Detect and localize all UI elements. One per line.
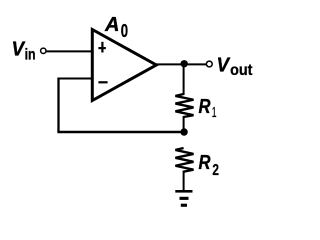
svg-text:R: R [199,96,211,118]
svg-text:R: R [199,152,211,174]
svg-text:out: out [230,62,253,79]
svg-text:2: 2 [212,162,219,179]
svg-text:in: in [25,47,36,64]
svg-text:A: A [104,14,120,36]
svg-text:1: 1 [212,104,217,121]
svg-text:V: V [217,55,231,77]
svg-text:V: V [12,39,26,61]
svg-text:0: 0 [121,21,128,41]
